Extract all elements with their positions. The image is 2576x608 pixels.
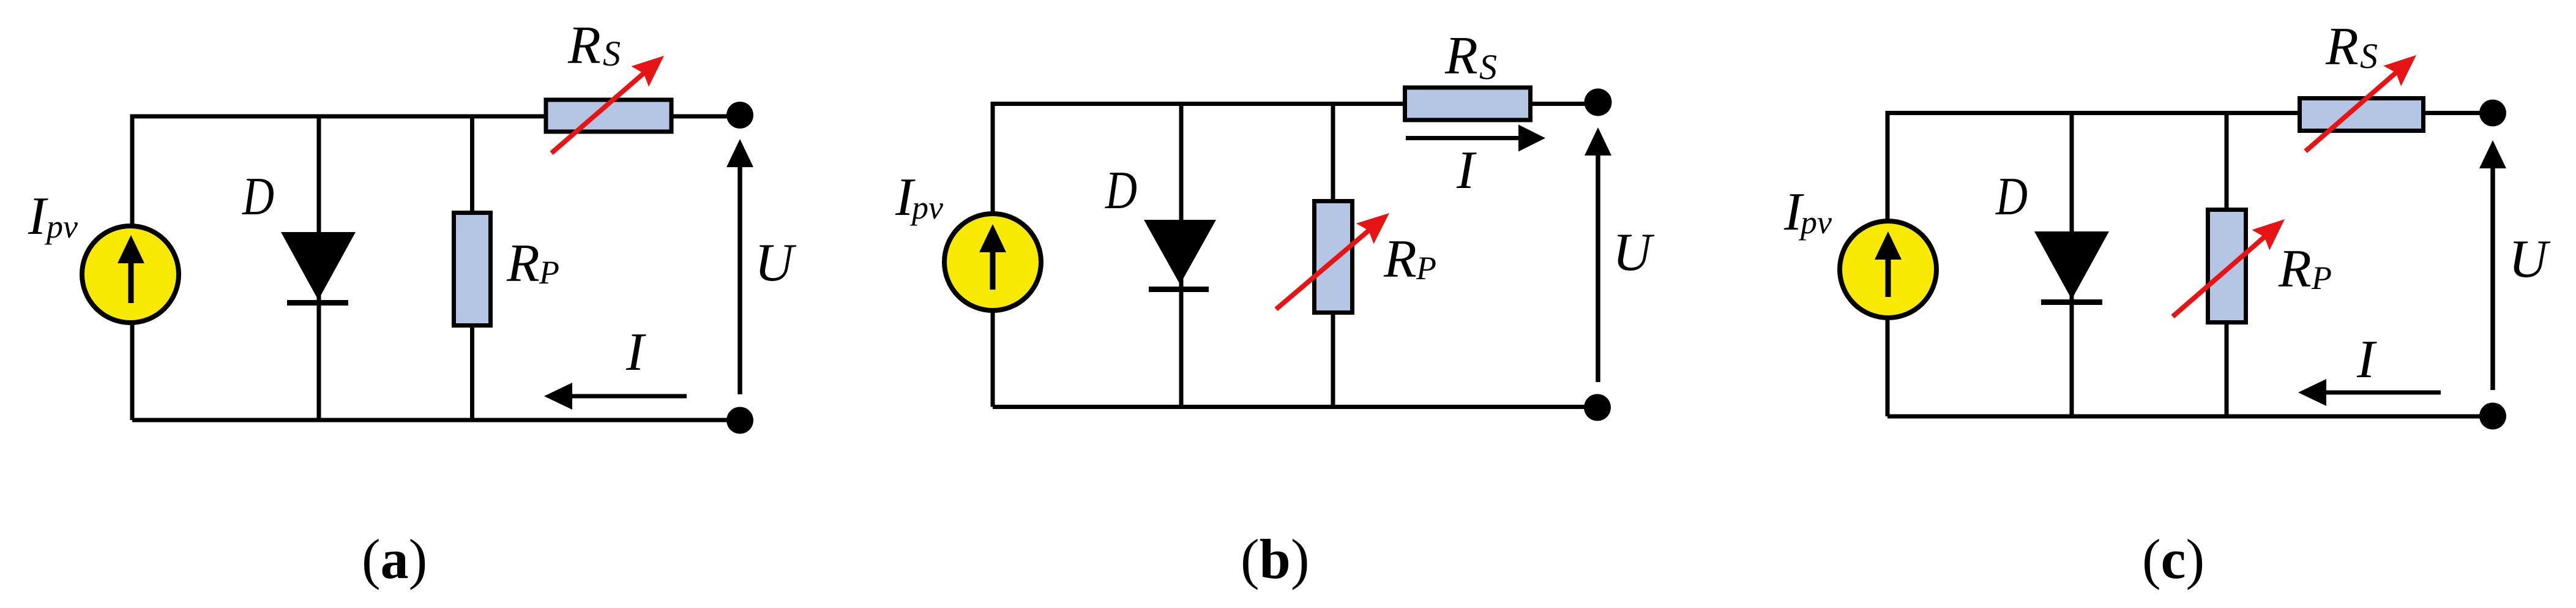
svg-text:U: U <box>755 233 797 293</box>
svg-text:S: S <box>1479 47 1497 87</box>
svg-text:U: U <box>1613 223 1655 282</box>
svg-text:R: R <box>1383 230 1417 289</box>
svg-text:S: S <box>603 34 621 73</box>
svg-text:D: D <box>242 167 274 227</box>
svg-text:R: R <box>2325 17 2359 77</box>
svg-text:D: D <box>1105 161 1137 220</box>
svg-text:I: I <box>28 187 48 246</box>
svg-text:pv: pv <box>44 208 78 245</box>
svg-text:S: S <box>2360 36 2378 76</box>
svg-text:R: R <box>567 16 601 75</box>
svg-text:R: R <box>2278 239 2312 299</box>
svg-text:(c): (c) <box>2142 528 2205 590</box>
svg-text:I: I <box>2356 330 2377 389</box>
svg-text:P: P <box>539 254 559 291</box>
svg-text:I: I <box>1456 141 1477 200</box>
svg-text:D: D <box>1995 167 2028 227</box>
svg-text:(a): (a) <box>362 528 427 590</box>
svg-text:R: R <box>506 234 540 293</box>
svg-text:P: P <box>2311 260 2332 296</box>
svg-text:I: I <box>625 323 646 382</box>
svg-text:P: P <box>1416 250 1436 287</box>
svg-text:(b): (b) <box>1241 528 1309 590</box>
svg-text:U: U <box>2509 230 2551 289</box>
svg-text:pv: pv <box>1798 204 1832 241</box>
svg-text:R: R <box>1444 26 1478 86</box>
svg-text:pv: pv <box>909 189 943 226</box>
